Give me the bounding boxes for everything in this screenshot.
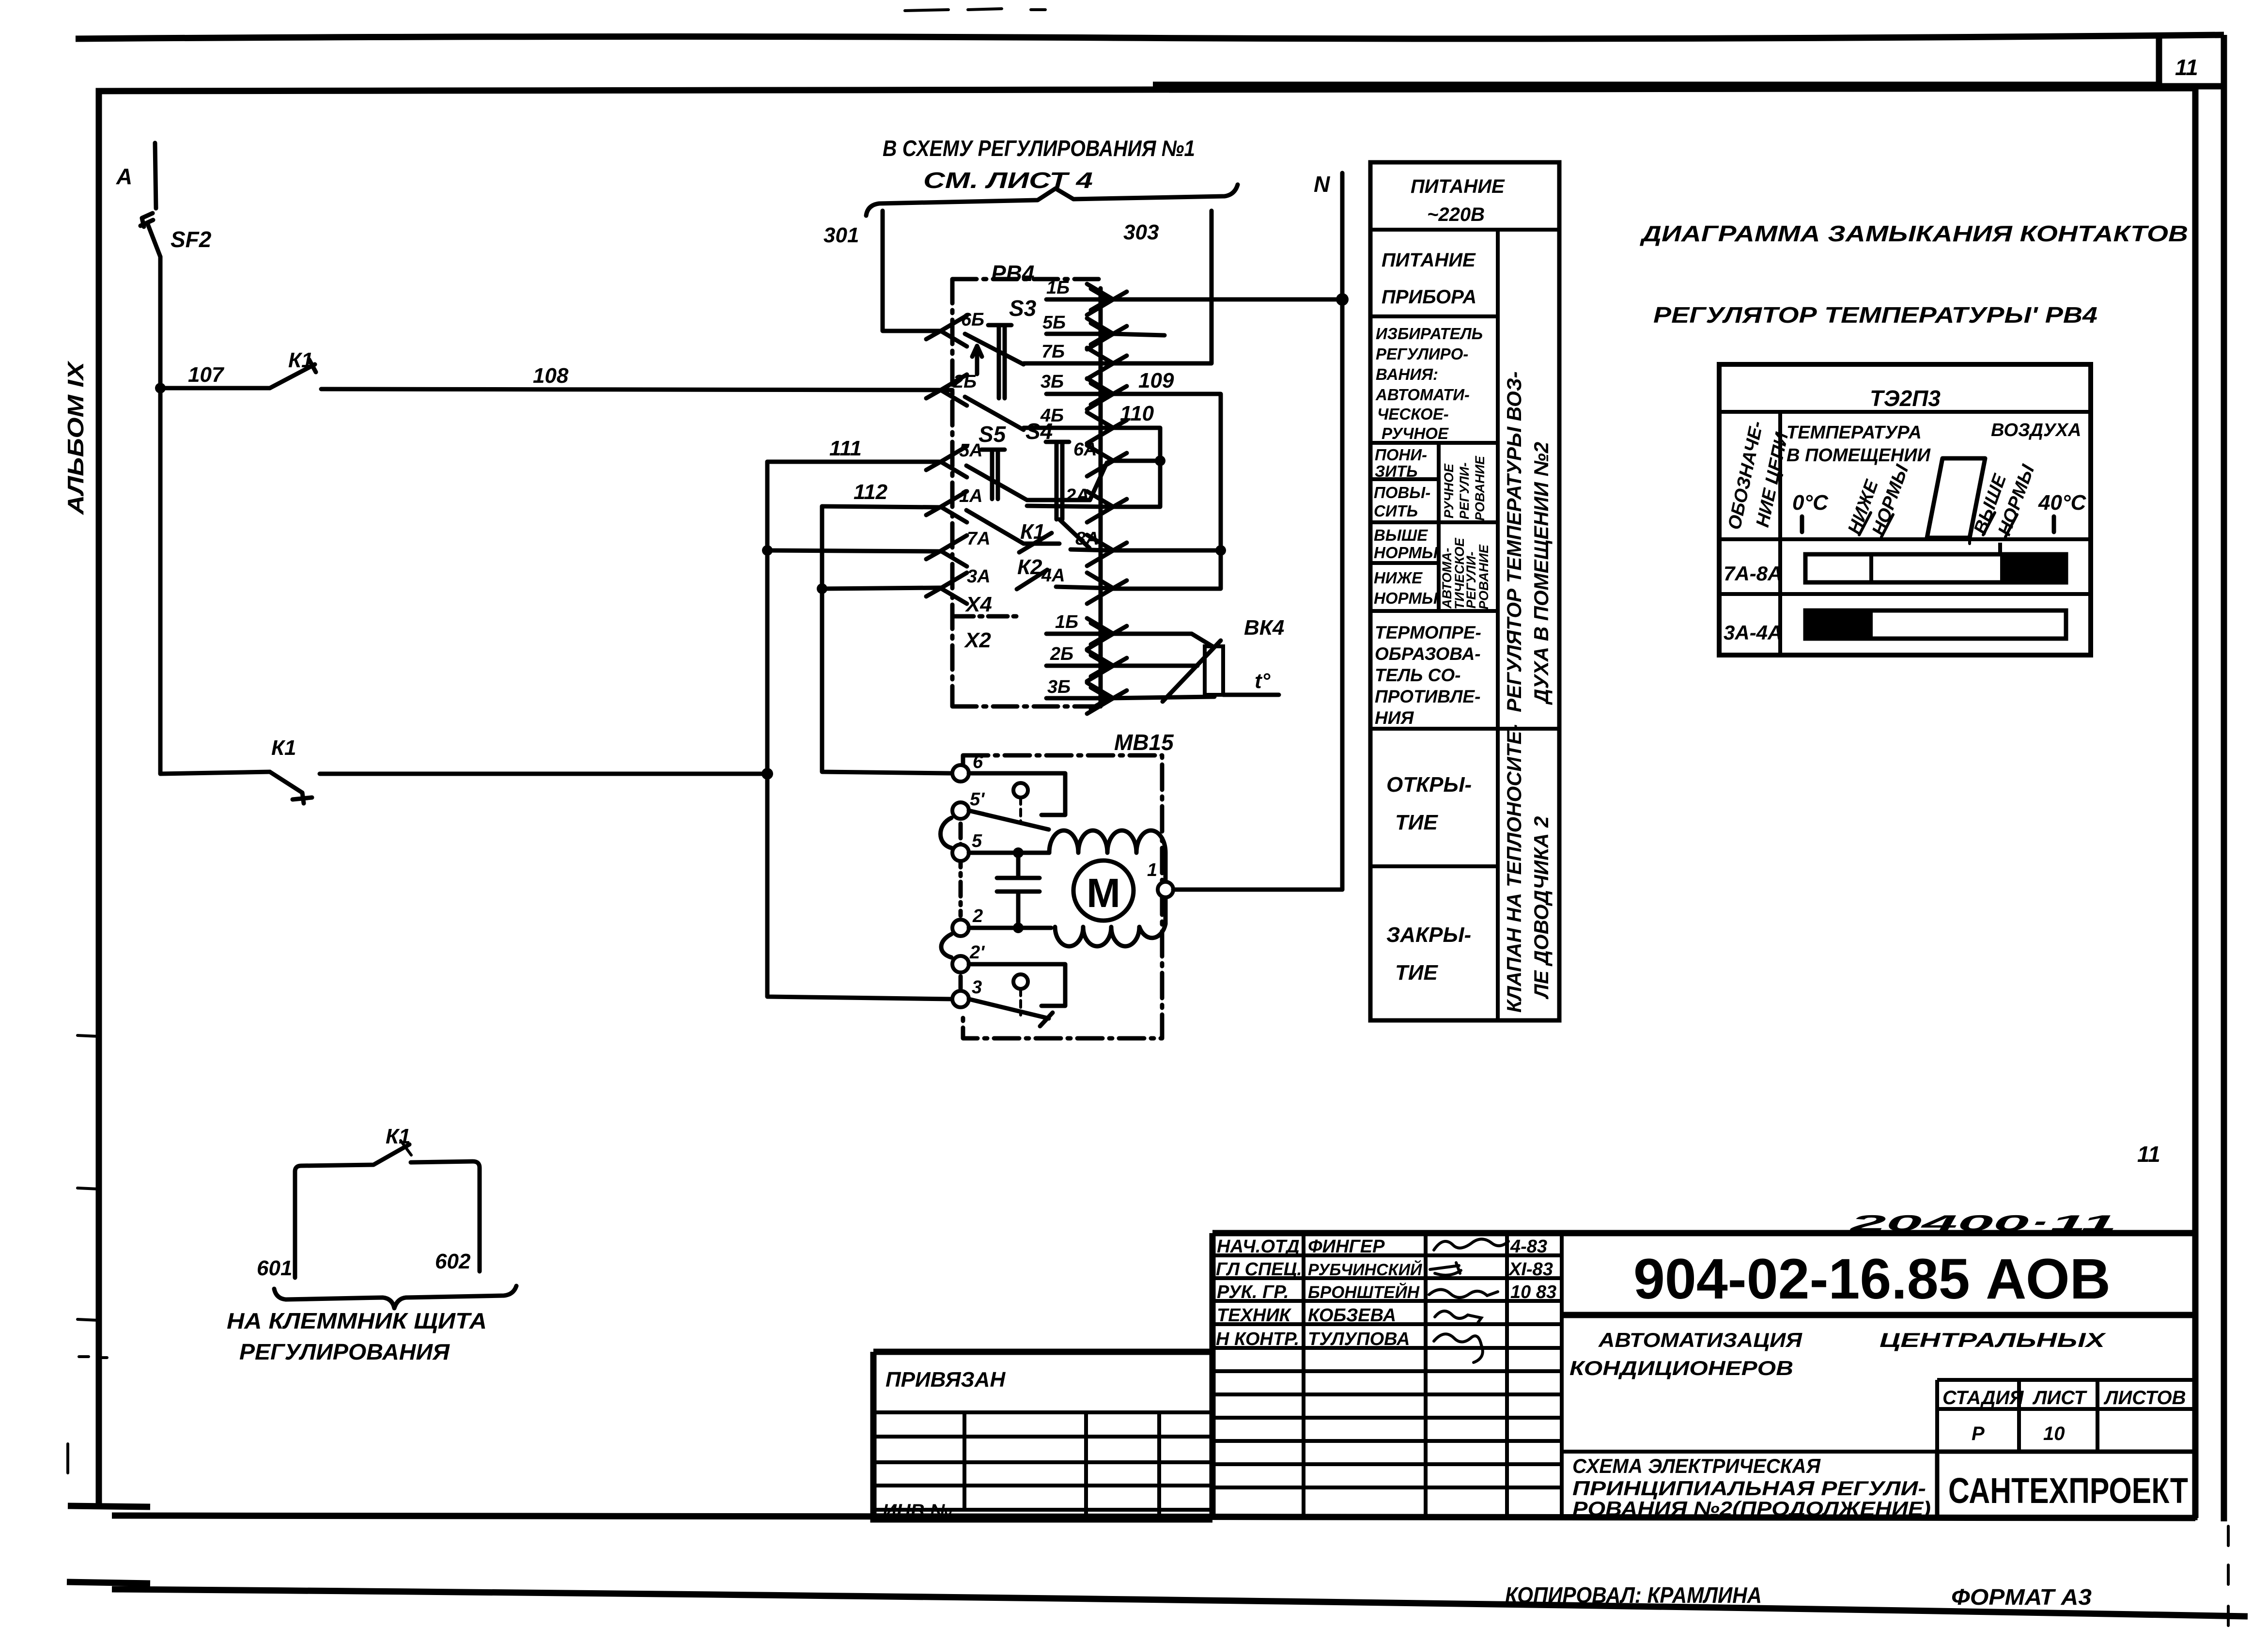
svg-text:ЛИСТ: ЛИСТ	[2032, 1387, 2088, 1408]
svg-text:Х4: Х4	[964, 593, 992, 616]
svg-text:602: 602	[435, 1250, 471, 1273]
svg-text:ТИЕ: ТИЕ	[1395, 961, 1439, 985]
svg-text:КОНДИЦИОНЕРОВ: КОНДИЦИОНЕРОВ	[1569, 1357, 1793, 1379]
svg-text:ВАНИЯ:: ВАНИЯ:	[1376, 365, 1438, 383]
svg-text:ЛИСТОВ: ЛИСТОВ	[2103, 1387, 2186, 1408]
svg-text:2А: 2А	[1065, 485, 1089, 506]
svg-text:РУК. ГР.: РУК. ГР.	[1217, 1282, 1289, 1302]
svg-text:М: М	[1087, 870, 1120, 916]
svg-text:БРОНШТЕЙН: БРОНШТЕЙН	[1308, 1282, 1420, 1302]
svg-text:2': 2'	[969, 942, 985, 963]
svg-text:СМ. ЛИСТ 4: СМ. ЛИСТ 4	[923, 168, 1093, 193]
svg-text:N: N	[1314, 172, 1330, 197]
svg-text:ТЕЛЬ СО-: ТЕЛЬ СО-	[1375, 665, 1460, 685]
svg-text:301: 301	[823, 223, 859, 247]
svg-text:ИНВ.№: ИНВ.№	[883, 1501, 952, 1522]
svg-text:7А-8А: 7А-8А	[1724, 562, 1782, 585]
svg-text:Х2: Х2	[963, 628, 991, 652]
svg-text:t°: t°	[1255, 669, 1271, 693]
svg-text:3Б: 3Б	[1041, 372, 1064, 392]
svg-text:ОТКРЫ-: ОТКРЫ-	[1386, 773, 1472, 797]
svg-text:А: А	[116, 164, 132, 189]
svg-text:ПОВЫ-: ПОВЫ-	[1374, 484, 1430, 501]
svg-text:4-83: 4-83	[1510, 1236, 1547, 1257]
svg-text:5Б: 5Б	[1042, 313, 1066, 333]
svg-text:XI-83: XI-83	[1508, 1259, 1553, 1280]
svg-text:S3: S3	[1009, 296, 1037, 321]
svg-text:~220В: ~220В	[1427, 204, 1485, 225]
svg-text:6А: 6А	[1073, 439, 1097, 460]
svg-text:20400·11: 20400·11	[1849, 1210, 2117, 1236]
svg-text:РЕГУЛИ-: РЕГУЛИ-	[1457, 463, 1472, 519]
svg-text:СИТЬ: СИТЬ	[1374, 502, 1418, 520]
svg-text:ПИТАНИЕ: ПИТАНИЕ	[1382, 250, 1476, 271]
svg-text:110: 110	[1120, 402, 1154, 425]
svg-text:САНТЕХПРОЕКТ: САНТЕХПРОЕКТ	[1948, 1471, 2188, 1511]
svg-text:ПИТАНИЕ: ПИТАНИЕ	[1411, 176, 1505, 197]
svg-text:1А: 1А	[959, 486, 983, 506]
svg-text:ПРОТИВЛЕ-: ПРОТИВЛЕ-	[1375, 687, 1480, 706]
svg-text:РЕГУЛЯТОР ТЕМПЕРАТУРЫ' РВ4: РЕГУЛЯТОР ТЕМПЕРАТУРЫ' РВ4	[1653, 302, 2097, 328]
svg-text:1Б: 1Б	[1055, 612, 1078, 632]
svg-text:S5: S5	[979, 422, 1007, 447]
svg-text:ЗАКРЫ-: ЗАКРЫ-	[1386, 923, 1471, 947]
svg-text:ВК4: ВК4	[1244, 616, 1284, 640]
svg-text:11: 11	[2175, 55, 2198, 80]
svg-text:111: 111	[829, 437, 862, 460]
svg-text:601: 601	[257, 1256, 292, 1280]
svg-text:1Б: 1Б	[1046, 278, 1070, 298]
svg-text:ПРИБОРА: ПРИБОРА	[1382, 286, 1476, 308]
svg-text:3А: 3А	[967, 566, 991, 587]
svg-text:СТАДИЯ: СТАДИЯ	[1942, 1387, 2024, 1408]
svg-text:РУБЧИНСКИЙ: РУБЧИНСКИЙ	[1308, 1260, 1423, 1279]
svg-text:ЛЕ ДОВОДЧИКА 2: ЛЕ ДОВОДЧИКА 2	[1530, 816, 1553, 1000]
svg-text:АВТОМАТИЗАЦИЯ: АВТОМАТИЗАЦИЯ	[1598, 1329, 1803, 1351]
svg-text:РУЧНОЕ: РУЧНОЕ	[1382, 424, 1449, 442]
svg-text:ЧЕСКОЕ-: ЧЕСКОЕ-	[1377, 405, 1449, 423]
svg-text:РОВАНИЕ: РОВАНИЕ	[1473, 455, 1487, 521]
svg-text:2Б: 2Б	[1050, 644, 1073, 664]
svg-text:SF2: SF2	[171, 227, 212, 252]
svg-text:НОРМЫ: НОРМЫ	[1374, 589, 1438, 607]
svg-text:НИЖЕ: НИЖЕ	[1374, 569, 1423, 587]
svg-text:ПРИВЯЗАН: ПРИВЯЗАН	[885, 1368, 1006, 1392]
svg-text:К1: К1	[288, 348, 313, 372]
svg-text:ДУХА В ПОМЕЩЕНИИ №2: ДУХА В ПОМЕЩЕНИИ №2	[1530, 442, 1553, 705]
svg-text:108: 108	[533, 364, 569, 388]
svg-text:ПОНИ-: ПОНИ-	[1375, 446, 1427, 464]
svg-text:СХЕМА ЭЛЕКТРИЧЕСКАЯ: СХЕМА ЭЛЕКТРИЧЕСКАЯ	[1572, 1455, 1821, 1477]
svg-text:ТЕМПЕРАТУРА: ТЕМПЕРАТУРА	[1786, 422, 1922, 443]
svg-text:904-02-16.85 АОВ: 904-02-16.85 АОВ	[1633, 1247, 2111, 1311]
svg-text:ЗИТЬ: ЗИТЬ	[1375, 462, 1417, 480]
svg-text:Р: Р	[1972, 1423, 1985, 1444]
svg-text:ЦЕНТРАЛЬНЫХ: ЦЕНТРАЛЬНЫХ	[1880, 1329, 2107, 1351]
svg-text:5: 5	[972, 831, 982, 851]
svg-text:Н КОНТР.: Н КОНТР.	[1216, 1329, 1299, 1349]
svg-text:112: 112	[854, 480, 888, 504]
svg-text:7А: 7А	[967, 529, 991, 549]
svg-text:1: 1	[1147, 860, 1157, 880]
svg-text:КОБЗЕВА: КОБЗЕВА	[1308, 1305, 1396, 1326]
svg-text:РУЧНОЕ: РУЧНОЕ	[1442, 463, 1456, 518]
svg-text:6Б: 6Б	[961, 310, 984, 330]
svg-text:ТЭ2П3: ТЭ2П3	[1870, 386, 1941, 411]
svg-text:ТЕХНИК: ТЕХНИК	[1217, 1305, 1292, 1326]
svg-text:ФИНГЕР: ФИНГЕР	[1308, 1236, 1385, 1257]
svg-text:РВ4: РВ4	[991, 261, 1034, 286]
svg-text:11: 11	[2137, 1142, 2160, 1167]
svg-text:РЕГУЛЯТОР ТЕМПЕРАТУРЫ ВОЗ-: РЕГУЛЯТОР ТЕМПЕРАТУРЫ ВОЗ-	[1503, 371, 1525, 712]
svg-text:107: 107	[188, 363, 225, 387]
svg-text:АВТОМАТИ-: АВТОМАТИ-	[1375, 386, 1470, 404]
svg-text:В СХЕМУ РЕГУЛИРОВАНИЯ №1: В СХЕМУ РЕГУЛИРОВАНИЯ №1	[883, 136, 1195, 161]
svg-text:40°С: 40°С	[2038, 491, 2087, 515]
svg-text:2: 2	[972, 906, 983, 926]
svg-text:ФОРМАТ А3: ФОРМАТ А3	[1951, 1584, 2092, 1610]
svg-text:2Б: 2Б	[953, 372, 977, 392]
svg-text:3А-4А: 3А-4А	[1724, 621, 1782, 644]
svg-text:РЕГУЛИРОВАНИЯ: РЕГУЛИРОВАНИЯ	[239, 1339, 450, 1364]
svg-text:303: 303	[1123, 220, 1159, 244]
svg-text:ИЗБИРАТЕЛЬ: ИЗБИРАТЕЛЬ	[1376, 325, 1483, 343]
svg-text:РОВАНИЯ №2(ПРОДОЛЖЕНИЕ): РОВАНИЯ №2(ПРОДОЛЖЕНИЕ)	[1572, 1497, 1931, 1520]
svg-text:ТИЕ: ТИЕ	[1395, 811, 1439, 834]
svg-text:НОРМЫ: НОРМЫ	[1374, 544, 1438, 562]
svg-text:5': 5'	[970, 789, 985, 810]
svg-text:3Б: 3Б	[1047, 677, 1071, 697]
svg-text:ОБРАЗОВА-: ОБРАЗОВА-	[1375, 644, 1481, 664]
svg-text:4А: 4А	[1041, 565, 1065, 586]
svg-text:10 83: 10 83	[1510, 1282, 1556, 1302]
svg-text:109: 109	[1138, 369, 1174, 392]
svg-text:ТУЛУПОВА: ТУЛУПОВА	[1308, 1329, 1410, 1349]
svg-text:10: 10	[2043, 1423, 2065, 1444]
svg-text:ВОЗДУХА: ВОЗДУХА	[1991, 420, 2081, 440]
svg-text:3: 3	[972, 977, 982, 998]
svg-text:0°С: 0°С	[1792, 491, 1829, 515]
svg-text:ВЫШЕ: ВЫШЕ	[1374, 526, 1428, 544]
svg-text:АЛЬБОМ IX: АЛЬБОМ IX	[63, 360, 88, 515]
svg-text:МВ15: МВ15	[1114, 730, 1174, 755]
svg-text:К1: К1	[271, 736, 296, 760]
svg-text:РОВАНИЕ: РОВАНИЕ	[1476, 544, 1491, 610]
svg-text:КОПИРОВАЛ: КРАМЛИНА: КОПИРОВАЛ: КРАМЛИНА	[1505, 1582, 1762, 1608]
svg-text:КЛАПАН НА ТЕПЛОНОСИТЕ-: КЛАПАН НА ТЕПЛОНОСИТЕ-	[1503, 724, 1525, 1013]
svg-text:РЕГУЛИРО-: РЕГУЛИРО-	[1376, 345, 1468, 363]
svg-text:ПРИНЦИПИАЛЬНАЯ РЕГУЛИ-: ПРИНЦИПИАЛЬНАЯ РЕГУЛИ-	[1572, 1477, 1926, 1500]
svg-text:7Б: 7Б	[1041, 342, 1065, 362]
svg-text:ТЕРМОПРЕ-: ТЕРМОПРЕ-	[1375, 623, 1481, 642]
svg-text:6: 6	[973, 752, 983, 772]
svg-text:НИЯ: НИЯ	[1375, 708, 1414, 728]
svg-text:В ПОМЕЩЕНИИ: В ПОМЕЩЕНИИ	[1786, 445, 1931, 466]
svg-text:НАЧ.ОТД: НАЧ.ОТД	[1217, 1236, 1300, 1257]
svg-text:ГЛ СПЕЦ.: ГЛ СПЕЦ.	[1216, 1259, 1302, 1280]
svg-text:НА КЛЕММНИК ЩИТА: НА КЛЕММНИК ЩИТА	[227, 1308, 487, 1333]
svg-text:ДИАГРАММА ЗАМЫКАНИЯ КОНТАКТО: ДИАГРАММА ЗАМЫКАНИЯ КОНТАКТОВ	[1639, 221, 2188, 246]
